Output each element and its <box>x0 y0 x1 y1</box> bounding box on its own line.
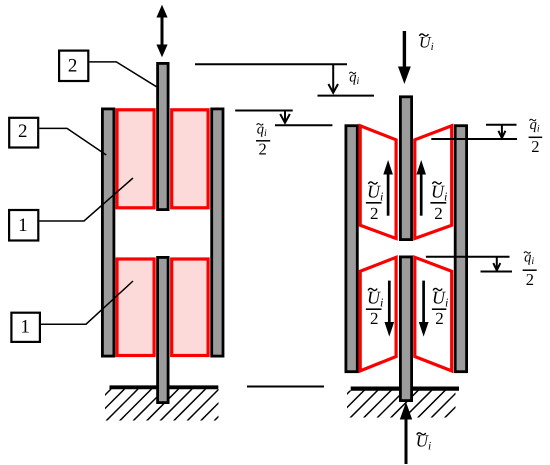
piezo element lower-right <box>172 259 208 356</box>
datum line from left piezo top <box>235 110 293 112</box>
label q_i/2 top-right <box>529 117 543 156</box>
dimension arrow q_i <box>328 64 338 93</box>
label box 1 (upper piezo) <box>9 210 38 241</box>
label U_i/2 upper-left <box>366 181 383 223</box>
label q_i/2 fraction <box>256 122 270 159</box>
internal arrow down right <box>419 281 429 337</box>
leader to upper piezo <box>39 178 133 221</box>
force arrow U_i bottom <box>400 402 412 464</box>
dimension q_i/2 top-right: line at plate top level <box>486 124 517 126</box>
short line below <box>481 271 513 273</box>
internal arrow up left <box>383 160 393 216</box>
piezo element upper-left <box>117 110 154 208</box>
piezo element upper-right <box>172 110 208 208</box>
rod upper segment right <box>400 97 411 240</box>
svg-text:2: 2 <box>434 204 443 223</box>
line at right plate top level <box>275 124 332 126</box>
leader to rod <box>90 62 157 87</box>
ground line right <box>351 387 459 391</box>
ground line left <box>110 385 219 389</box>
force arrow U_i top <box>398 31 411 84</box>
right plate right <box>455 126 466 372</box>
ground hatching left <box>77 389 246 423</box>
rod upper segment <box>158 63 169 209</box>
rod lower segment <box>158 257 169 402</box>
double arrow top <box>156 5 167 57</box>
right plate (electrode 2) <box>212 109 223 356</box>
label q_i/2 bottom-right <box>523 250 537 289</box>
label U_i/2 lower-right <box>432 287 448 328</box>
svg-text:2: 2 <box>526 270 534 289</box>
svg-text:1: 1 <box>20 317 30 338</box>
line at right rod top level <box>318 95 375 97</box>
svg-text:2: 2 <box>18 121 28 142</box>
label box 1 (lower piezo) <box>11 313 40 342</box>
sheared piezo lower-left <box>360 257 396 371</box>
sheared piezo upper-right <box>415 126 452 239</box>
left plate (electrode 2) <box>102 109 114 356</box>
connector line between grounds <box>247 386 324 388</box>
svg-text:2: 2 <box>370 309 379 328</box>
svg-text:Ui: Ui <box>419 34 434 53</box>
left plate right <box>346 126 357 372</box>
label U_i/2 lower-left <box>366 287 383 328</box>
dimension arrow <box>498 125 505 138</box>
datum line from left rod top <box>195 63 347 65</box>
svg-text:2: 2 <box>531 137 539 156</box>
rod lower segment right <box>400 257 411 401</box>
svg-text:2: 2 <box>435 309 444 328</box>
sheared piezo upper-left <box>360 126 396 239</box>
leader to plate <box>39 128 106 155</box>
label box 2 (plate) <box>9 118 38 148</box>
piezo element lower-left <box>117 259 154 356</box>
label box 2 (rod) <box>59 51 88 81</box>
svg-text:2: 2 <box>68 56 78 77</box>
svg-text:qi: qi <box>257 122 267 139</box>
label U_i/2 upper-right <box>430 181 447 223</box>
svg-text:2: 2 <box>370 204 379 223</box>
ground hatching right <box>320 389 474 421</box>
internal arrow up right <box>416 160 426 216</box>
dimension arrow <box>493 257 500 271</box>
svg-text:2: 2 <box>259 140 267 159</box>
internal arrow down left <box>385 281 395 337</box>
leader to lower piezo <box>41 281 133 324</box>
svg-text:qi: qi <box>530 117 540 134</box>
svg-text:1: 1 <box>18 215 28 236</box>
svg-text:qi: qi <box>524 250 534 267</box>
dimension q_i/2 bottom-right: line at red corner level <box>426 256 510 258</box>
sheared piezo lower-right <box>415 257 452 371</box>
dimension arrow q_i/2 left <box>280 111 290 123</box>
line at red corner level <box>431 138 517 140</box>
